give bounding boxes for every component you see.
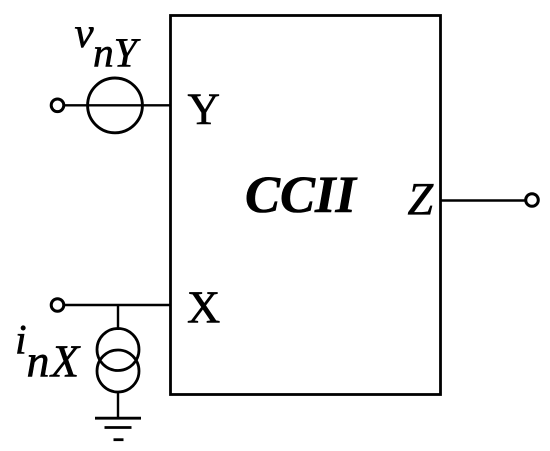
node Z terminal (open circle): [526, 194, 539, 207]
pin label Z: [408, 184, 433, 214]
label vnY: subscript nY: [94, 39, 140, 66]
wire current source to ground: [117, 392, 119, 418]
node Y terminal (open circle): [51, 99, 64, 112]
current noise source inX (top circle): [97, 329, 139, 371]
voltage noise source vnY: [88, 78, 143, 133]
wire Z output: [441, 199, 526, 201]
wire Y input: [64, 104, 171, 106]
pin label X: [188, 292, 219, 322]
label inX: subscript nX: [28, 346, 80, 376]
node X terminal (open circle): [51, 299, 64, 312]
label vnY: v: [75, 27, 94, 47]
pin label Y: [188, 95, 219, 124]
wire junction to current source inX: [117, 305, 119, 330]
wire X input: [64, 304, 171, 306]
label inX: i: [17, 326, 25, 354]
ground bar 2: [105, 426, 132, 429]
ground bar 1: [95, 417, 141, 420]
label CCII: [247, 177, 358, 212]
ground bar 3: [114, 438, 124, 441]
current noise source inX (bottom circle): [97, 350, 139, 392]
CCII block U1: [171, 16, 441, 395]
